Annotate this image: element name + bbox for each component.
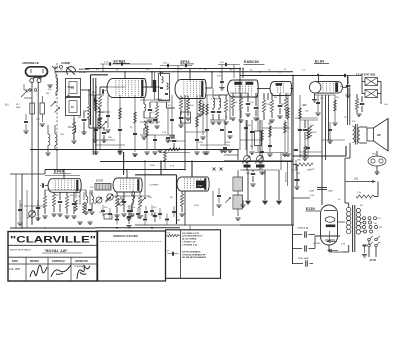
svg-text:4,7K: 4,7K	[104, 62, 109, 64]
wire EZ80 anode from HT line	[321, 156, 323, 205]
svg-text:100K: 100K	[246, 125, 251, 127]
svg-text:2M: 2M	[78, 117, 81, 119]
svg-text:1 POINT 1 W: 1 POINT 1 W	[182, 242, 196, 244]
svg-text:22N: 22N	[148, 197, 152, 199]
svg-text:K EN KILOFARADS PF: K EN KILOFARADS PF	[182, 253, 206, 256]
coil row2 x133	[133, 192, 135, 199]
svg-text:10K: 10K	[297, 160, 301, 162]
wire slug	[154, 72, 156, 80]
wire to transformer heavy	[315, 235, 340, 237]
svg-text:304: 304	[46, 93, 49, 95]
svg-text:EZ80: EZ80	[306, 207, 315, 211]
svg-text:APPROUVE: APPROUVE	[75, 260, 88, 263]
svg-text:100K: 100K	[225, 142, 230, 144]
svg-text:25N: 25N	[262, 173, 266, 175]
capacitor C3	[102, 132, 106, 134]
caps 470 row2	[127, 210, 131, 212]
extra caps	[118, 129, 122, 131]
signature approuve	[77, 265, 90, 279]
wire EL84 bus drop	[318, 76, 320, 82]
wire pots	[246, 120, 248, 156]
svg-text:470K: 470K	[194, 205, 199, 207]
resistor R13 470k	[270, 100, 273, 112]
tube V4 EL84 envelope	[309, 82, 321, 94]
tone pot P3	[96, 197, 102, 203]
junction dots bottom bus	[116, 227, 118, 229]
wire V2 to top bus	[189, 69, 191, 81]
ground fill set	[144, 151, 149, 153]
svg-text:350V: 350V	[300, 155, 305, 157]
svg-text:RECEPTEUR RADIO: RECEPTEUR RADIO	[10, 248, 31, 251]
wire can link	[68, 86, 75, 88]
svg-text:"ROYAL J-B": "ROYAL J-B"	[44, 249, 68, 253]
wire segment grid	[100, 63, 152, 65]
grounds main row	[117, 151, 122, 153]
pot P5 row2	[107, 194, 113, 200]
svg-text:ECF80: ECF80	[96, 181, 104, 183]
FM discriminator coils	[86, 196, 88, 203]
wire EL84 anode to OT	[343, 86, 348, 88]
svg-text:4,4 FMRS: 4,4 FMRS	[211, 99, 221, 101]
coil under B2	[74, 126, 76, 133]
trimmers second row	[106, 198, 111, 203]
speaker HP driver	[367, 128, 374, 141]
svg-text:EF93: EF93	[181, 60, 190, 64]
svg-text:50N: 50N	[310, 125, 314, 127]
filter capacitor C20 50uF	[293, 248, 303, 250]
extra grounds	[93, 151, 98, 153]
tuning gang dashed link	[56, 63, 58, 150]
wire HT bus upper	[85, 68, 240, 70]
ratio detector transformer box upper	[233, 177, 243, 191]
svg-text:EN OHMS 1/2 W: EN OHMS 1/2 W	[182, 233, 199, 235]
capacitor C5 grid	[102, 89, 104, 93]
ratio detector transformer box lower	[233, 195, 243, 209]
wire V3b to B+ vertical	[291, 88, 294, 90]
resistor box R22	[255, 131, 262, 146]
label aigue dark	[256, 165, 265, 168]
legend divider	[180, 230, 182, 278]
title block frame	[8, 232, 98, 282]
wire grid coupling down	[321, 95, 323, 160]
ground left drop	[40, 123, 45, 125]
capacitor C14	[278, 105, 282, 107]
svg-text:10N: 10N	[60, 134, 64, 136]
coil can B1 PO	[66, 79, 81, 97]
svg-text:22k: 22k	[132, 207, 135, 209]
wire main earth bus	[240, 224, 293, 226]
HP STAT box 2	[365, 90, 378, 98]
signature controle	[51, 265, 71, 277]
resistor R12 volume feed	[262, 100, 265, 112]
wire fill verticals	[99, 115, 101, 150]
resistor R17	[355, 99, 358, 109]
cap leads bottom row	[128, 212, 130, 224]
legend box frame	[166, 230, 221, 278]
svg-text:130.: 130.	[354, 178, 359, 181]
grid cap V6	[42, 183, 44, 187]
tube V1 ECH81 envelope	[107, 79, 113, 98]
svg-text:4,7K: 4,7K	[170, 166, 175, 168]
svg-text:HP: HP	[377, 133, 381, 137]
grounds detector	[230, 117, 235, 119]
resistor block RB	[40, 103, 45, 114]
svg-text:1M: 1M	[274, 97, 277, 99]
svg-text:220: 220	[379, 227, 382, 229]
junction marks	[116, 227, 118, 229]
svg-text:5M: 5M	[250, 146, 253, 148]
wire V8 drop	[191, 170, 193, 178]
tube V5 EZ80 envelope	[321, 205, 338, 245]
wire vertical grid	[95, 87, 97, 150]
wire lamps	[376, 151, 378, 156]
capacitor C17	[360, 103, 364, 105]
svg-text:47K: 47K	[150, 123, 154, 125]
caps under pots	[251, 173, 255, 175]
wire EL84 screen feed verticals	[347, 76, 349, 126]
second row bottom bus	[95, 227, 180, 229]
wire antenna twin drop right	[37, 82, 39, 220]
pot P6 row2	[118, 199, 124, 205]
wire V1 to top bus	[124, 72, 126, 79]
svg-text:EABC80: EABC80	[244, 60, 259, 64]
antenna stem	[33, 76, 35, 79]
tube V3 EABC80 envelope	[228, 80, 233, 97]
dark core slug	[153, 80, 156, 92]
svg-text:DESSIN: DESSIN	[30, 261, 39, 263]
svg-text:1M: 1M	[200, 112, 203, 114]
wire HT bus right	[240, 75, 345, 77]
svg-text:CADRE: CADRE	[61, 61, 70, 65]
small component box bottom row	[104, 214, 112, 219]
svg-text:TR.BUREAU: TR.BUREAU	[74, 265, 85, 268]
wire fill horizontals	[95, 111, 110, 113]
FM coil box	[95, 184, 111, 191]
mid verticals	[184, 95, 186, 170]
wire V2 anode	[205, 87, 212, 89]
wire T1 to bus	[160, 72, 162, 76]
antenna terminals	[30, 79, 34, 83]
cadre loop antenna	[67, 67, 76, 75]
svg-text:1M: 1M	[281, 104, 284, 106]
resistor R9	[224, 100, 227, 112]
svg-text:0,5MF: 0,5MF	[309, 191, 315, 193]
svg-text:1,4 FMRS: 1,4 FMRS	[149, 185, 159, 187]
capacitor C2 oscillator	[94, 98, 96, 102]
svg-text:3 X HP STAT 9083: 3 X HP STAT 9083	[356, 74, 376, 77]
svg-text:1,5K: 1,5K	[162, 132, 167, 134]
wire V1 anode to IF1	[143, 86, 152, 88]
capacitor C18	[294, 179, 299, 181]
T1 primary winding	[162, 77, 164, 83]
tube V7 envelope	[113, 178, 117, 192]
svg-text:220K: 220K	[266, 104, 271, 106]
modifications box frame	[97, 231, 166, 281]
diode tube V3b	[270, 82, 274, 96]
svg-text:50MF+50MF: 50MF+50MF	[298, 258, 310, 260]
svg-text:CHBO: CHBO	[197, 186, 203, 188]
svg-text:470k: 470k	[312, 132, 316, 134]
svg-text:B.U.: B.U.	[5, 105, 10, 107]
tube V8 envelope with dark target	[177, 177, 181, 191]
wire HP STAT feed	[345, 75, 362, 77]
Y aerial symbol	[54, 69, 56, 74]
resistor fill set	[99, 118, 102, 129]
svg-text:4,5P: 4,5P	[217, 76, 222, 78]
wire V6 drop	[63, 170, 65, 179]
ground tuning coil	[45, 152, 50, 154]
svg-text:EN PICOFARADS: EN PICOFARADS	[182, 250, 201, 253]
svg-text:22K: 22K	[305, 111, 309, 113]
svg-text:4,7KΩP: 4,7KΩP	[313, 243, 321, 245]
wire heavy drop x123	[123, 152, 125, 175]
speaker cone	[374, 119, 389, 152]
T4 mains tap circles	[363, 217, 366, 220]
svg-text:1M: 1M	[68, 126, 71, 129]
decoupling box C8	[181, 112, 191, 123]
wire AVC line	[30, 149, 238, 151]
capacitor mains filter	[363, 244, 367, 246]
resistor R21	[43, 196, 46, 208]
screen bypass C7	[179, 117, 183, 119]
cathode resistor R7 150	[186, 99, 189, 110]
volume potentiometer P1	[244, 156, 251, 163]
wire heavy drop x192	[191, 161, 193, 177]
capacitor C9 AVC	[172, 140, 176, 142]
wire T3 primary bottom to HT	[349, 143, 351, 158]
svg-text:10N: 10N	[296, 173, 300, 175]
HP STAT box 1	[365, 78, 378, 86]
tuning coils bottom	[48, 134, 50, 145]
T1 secondary winding	[167, 83, 169, 89]
IF transformer T2 secondary	[219, 98, 221, 108]
small parts left	[24, 121, 28, 123]
svg-text:22K: 22K	[302, 105, 306, 107]
coupling caps row	[101, 210, 105, 212]
capacitor fill set	[106, 115, 110, 117]
svg-text:4,7K MILLIERS D'O.: 4,7K MILLIERS D'O.	[182, 235, 203, 238]
capacitor C22	[36, 207, 40, 209]
filter capacitor C19 50uF	[293, 234, 303, 236]
coil L4	[144, 121, 146, 128]
ground cans	[81, 131, 86, 133]
wire cap link vertical	[314, 236, 316, 249]
svg-text:MODIFICATIONS: MODIFICATIONS	[114, 234, 139, 238]
V6 cathode parts	[52, 194, 55, 206]
capacitor C4 220p	[82, 119, 86, 121]
wire to transformer top	[344, 158, 346, 203]
capacitor C16 5nF	[346, 85, 350, 87]
detector load resistors	[231, 96, 234, 108]
heavy vertical pair left of ECH81	[92, 78, 94, 155]
svg-text:MHZ: MHZ	[16, 107, 21, 109]
wire left drops	[21, 174, 23, 228]
mains switch contacts	[368, 238, 371, 241]
wire EZ80 output	[338, 221, 345, 223]
filter capacitor C21 50uF	[293, 263, 304, 265]
ground tweeter net	[356, 113, 361, 115]
caps x219 row2	[217, 195, 221, 197]
T1 tuning caps	[160, 87, 163, 89]
tone potentiometer P2	[257, 156, 264, 163]
wire switch drops	[368, 241, 370, 244]
svg-text:PO-GO: PO-GO	[79, 72, 87, 74]
wire V1 grid	[100, 86, 108, 88]
wire heavy B+ row2 horizontal	[135, 174, 177, 176]
grounds on earth bus	[245, 201, 250, 203]
coil can B2 GO	[66, 98, 81, 116]
cadre terminal circle	[60, 65, 63, 68]
resistor R4 2.2M	[98, 96, 101, 108]
resistor R3 1M	[72, 122, 75, 134]
padder trimmers	[51, 102, 56, 107]
mains cord leads	[368, 252, 370, 257]
svg-text:6,3V: 6,3V	[341, 244, 346, 246]
svg-text:50MA 6A: 50MA 6A	[297, 227, 306, 230]
svg-text:osc: osc	[104, 90, 107, 92]
IF transformer can T1	[159, 74, 170, 101]
svg-text:(4.700 OHMS): (4.700 OHMS)	[182, 238, 196, 241]
coil L3	[144, 104, 146, 111]
svg-text:130: 130	[374, 223, 377, 225]
ground mains	[362, 254, 367, 256]
wire antenna twin drop left	[31, 82, 33, 225]
svg-text:ECH81: ECH81	[114, 59, 126, 63]
T3 core	[355, 124, 357, 145]
wire V7 drop	[126, 170, 128, 179]
ground lamps	[374, 171, 379, 173]
oscillator coil L2	[98, 108, 100, 119]
ground EL84 cathode	[314, 93, 316, 100]
svg-text:50MF: 50MF	[328, 191, 334, 193]
screen resistor R6	[179, 97, 182, 109]
svg-text:47K: 47K	[254, 97, 258, 99]
detector caps	[246, 103, 250, 105]
resistor block RA	[30, 103, 35, 114]
terminal circles under antenna	[29, 89, 32, 92]
wire mid horizontal links	[224, 160, 292, 162]
cap above EABC80	[220, 81, 224, 83]
T3 secondary	[358, 127, 360, 143]
wire T4 primary leads	[348, 203, 350, 207]
cross marks ratio det	[213, 168, 216, 171]
wire V3 to bus	[242, 69, 244, 79]
resistor R5 470	[155, 106, 158, 118]
IF1 bypass parts	[148, 109, 152, 111]
aerial coil L1	[56, 78, 58, 92]
T4 core	[352, 205, 354, 252]
wire heavy drop x161	[160, 161, 162, 175]
grid resistor R16 470k	[308, 126, 311, 138]
wire diode link	[257, 88, 270, 90]
wire HT mid line	[293, 155, 346, 157]
modification rule line	[100, 241, 162, 243]
T2 caps	[211, 111, 215, 113]
node HT dot above EL84	[317, 74, 319, 76]
svg-text:1,2K: 1,2K	[310, 169, 315, 171]
power transformer T4 primary winding	[347, 207, 351, 211]
IF transformer T2 primary	[213, 98, 215, 108]
heavy antenna wire	[90, 75, 92, 125]
svg-text:JUIL.1955: JUIL.1955	[9, 268, 21, 271]
table header row	[8, 263, 98, 265]
svg-text:470K: 470K	[198, 142, 203, 144]
extra resistors	[95, 100, 98, 111]
svg-text:B.P.: B.P.	[352, 121, 356, 123]
svg-text:CONTROLE: CONTROLE	[52, 261, 65, 263]
svg-text:ANTENNE FB: ANTENNE FB	[22, 61, 39, 65]
wire T3 to speaker	[360, 126, 367, 128]
AVC resistor R8	[168, 148, 180, 151]
wire T1 secondary to V2 grid	[166, 102, 168, 108]
wire HT bus main	[55, 71, 293, 73]
V8 under parts	[180, 194, 183, 206]
padder trimmer CV2	[102, 122, 107, 127]
T4 tap wires	[361, 217, 363, 219]
trimmer left column	[21, 91, 27, 97]
signature dessin	[30, 265, 47, 277]
wire heavy B+ row2 vertical	[176, 175, 178, 224]
switch arrows between cans	[65, 95, 69, 99]
output transformer T3 primary	[353, 126, 355, 143]
label basse dark	[244, 165, 251, 168]
filter cap on anode line	[317, 187, 327, 189]
svg-text:47: 47	[167, 251, 169, 253]
wire B+ vertical main	[292, 76, 294, 226]
svg-text:MF EN MICROFARADS: MF EN MICROFARADS	[182, 256, 206, 259]
svg-text:"CLARVILLE": "CLARVILLE"	[10, 235, 96, 246]
wire FM top bus	[45, 169, 185, 171]
svg-text:ALT/S: ALT/S	[370, 259, 377, 262]
node junction top bus	[239, 68, 241, 70]
vertical drops row2 right	[212, 191, 214, 216]
arrow 2	[328, 249, 332, 251]
svg-text:50K: 50K	[108, 137, 112, 139]
resistor R2 22k	[87, 105, 90, 118]
T4 secondary winding	[356, 208, 360, 212]
svg-text:N 1,2K: N 1,2K	[292, 170, 299, 172]
resistor row2 x140	[138, 196, 141, 208]
extra junction dots	[151, 86, 153, 88]
small caps top row	[109, 62, 111, 66]
svg-text:6,3V: 6,3V	[310, 195, 315, 197]
svg-text:25N: 25N	[100, 112, 104, 114]
coupling capacitor C15	[303, 129, 307, 131]
ground aerial coil	[47, 84, 52, 86]
resistor R14 1M	[284, 98, 287, 110]
wire drop to legend area	[189, 226, 191, 230]
wire long mid line extension	[100, 161, 293, 163]
svg-text:EL84: EL84	[315, 59, 324, 63]
V7 under parts	[115, 195, 118, 207]
ground oscillator	[92, 139, 97, 141]
pilot lamps oval	[368, 156, 386, 166]
wire detector out	[267, 93, 269, 100]
tube V2 EF93 envelope	[175, 80, 181, 99]
svg-text:250K: 250K	[150, 165, 155, 167]
svg-text:50N: 50N	[246, 173, 250, 175]
svg-text:DATE: DATE	[12, 260, 19, 263]
cap 47 row2	[144, 211, 148, 213]
svg-text:TR: TR	[344, 117, 347, 119]
junction dot fill	[159, 71, 161, 73]
svg-text:2 POINTS 2 W: 2 POINTS 2 W	[182, 244, 197, 246]
svg-text:110: 110	[378, 218, 381, 220]
table column dividers	[25, 257, 27, 281]
antenna inner ticks	[30, 69, 32, 73]
volume pot P4	[29, 211, 36, 218]
wire ratio det	[237, 170, 239, 177]
